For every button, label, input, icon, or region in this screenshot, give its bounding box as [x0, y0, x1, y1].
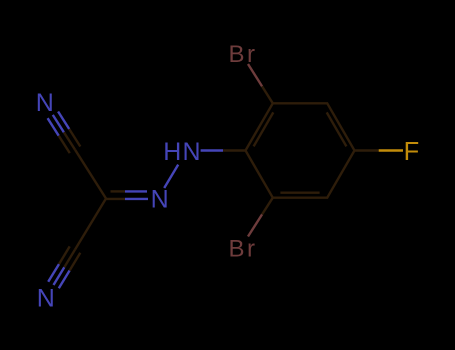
- aromatic inner line on edge C5-C6: [280, 191, 319, 193]
- wire C6-Br bond (Br half dark red, C half dark): [248, 214, 262, 236]
- wire C4-F bond (C half dark, F half orange): [355, 149, 379, 151]
- aromatic inner line on edge C3-C4: [327, 112, 347, 146]
- triple bond C#N of top nitrile (N half blue, C half dark): [48, 118, 59, 136]
- wire C-C bond from top nitrile carbon to central carbon: [75, 150, 106, 199]
- aromatic inner line on edge C1-C2: [254, 112, 274, 146]
- wire C2-Br bond (Br half dark red, C half dark): [248, 64, 262, 86]
- wire N-N bond from =N up to NH: [164, 165, 178, 188]
- triple bond C#N of bottom nitrile (N half blue, C half dark): [59, 271, 70, 289]
- svg-text:F: F: [404, 138, 420, 166]
- wire N-C bond from NH to ring C1 (N half blue, C half dark): [201, 149, 223, 151]
- wire C-C bond from bottom nitrile carbon to central carbon: [75, 199, 106, 250]
- svg-text:HN: HN: [163, 138, 202, 166]
- double bond C=N (C half dark, N half blue): [106, 198, 125, 200]
- svg-text:N: N: [36, 89, 54, 117]
- svg-text:Br: Br: [229, 41, 258, 68]
- svg-text:N: N: [37, 285, 55, 313]
- svg-text:N: N: [151, 186, 169, 214]
- svg-text:Br: Br: [229, 236, 258, 263]
- benzene ring of 2,6-dibromo-4-fluorophenyl: [246, 103, 355, 197]
